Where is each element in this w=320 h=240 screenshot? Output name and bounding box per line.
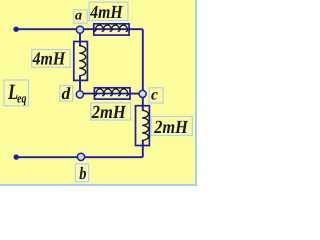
wire: bottom of right inductor coil to bottom rail: [142, 140, 144, 157]
node c circle: [139, 90, 146, 97]
coil joint curls L1: [94, 29, 129, 31]
wire: node a down to top of left inductor coil: [79, 29, 81, 46]
label box node b: [75, 164, 89, 183]
panel bottom border: [0, 184, 197, 186]
coil loops L3 mid 2mH: [96, 89, 128, 94]
inductor L1 4mH top: body box: [94, 24, 129, 35]
label box 2mH mid: [90, 103, 130, 121]
wire: node d to node c: [80, 93, 143, 95]
label box Leq: [4, 80, 29, 107]
panel background: [0, 0, 197, 186]
coil loops L2 left 4mH: [79, 46, 85, 76]
label box 4mH left: [31, 49, 70, 67]
label box node c: [149, 87, 164, 103]
wire: bottom of left inductor coil to node d: [79, 76, 81, 95]
svg-text:2mH: 2mH: [153, 118, 188, 138]
panel right border: [195, 0, 197, 186]
label box 2mH right: [151, 116, 193, 136]
wire: right vertical, corner down to node c: [142, 29, 144, 110]
label box node a: [73, 10, 87, 24]
label box 4mH top: [89, 2, 129, 21]
svg-text:b: b: [79, 163, 86, 183]
inductor L3 2mH mid: body box: [94, 88, 130, 99]
wire: bottom rail from corner through node b to left terminal: [16, 156, 143, 158]
svg-text:a: a: [75, 8, 82, 24]
terminal dot top-left: [13, 27, 18, 32]
svg-text:4mH: 4mH: [89, 3, 123, 23]
svg-text:eq: eq: [17, 91, 27, 106]
node d circle: [76, 91, 83, 98]
svg-text:c: c: [151, 87, 158, 104]
coil joint curls L3: [94, 94, 129, 96]
node a circle: [76, 26, 83, 33]
wire: top lead from left terminal through node a to top-right corner: [16, 28, 143, 30]
node b circle: [77, 153, 84, 160]
inductor L4 2mH right: body box: [136, 106, 150, 146]
label box node d: [59, 85, 73, 101]
white gap strip above top inductor: [95, 22, 129, 24]
coil loops L1 top 4mH: [95, 25, 127, 29]
svg-text:d: d: [62, 84, 71, 103]
terminal dot bottom-left: [14, 154, 19, 159]
inductor L2 4mH left: body box: [74, 42, 88, 81]
svg-text:2mH: 2mH: [91, 103, 126, 123]
coil loops L4 right 2mH: [142, 110, 148, 140]
svg-text:4mH: 4mH: [32, 50, 66, 70]
